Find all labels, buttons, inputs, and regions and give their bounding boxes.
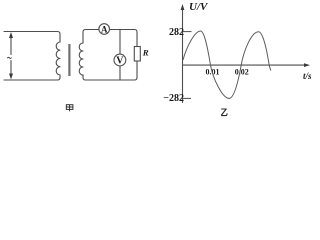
wire resistor bottom to corner xyxy=(83,61,137,80)
coil secondary L2 xyxy=(79,43,83,75)
label yi (graph 乙) xyxy=(221,109,227,116)
AC tilde xyxy=(7,56,11,59)
graph y-axis xyxy=(182,7,184,103)
svg-text:R: R xyxy=(142,47,149,57)
tick -282 xyxy=(183,97,192,99)
graph t-axis xyxy=(183,64,307,66)
label jia (circuit 甲) xyxy=(66,105,73,112)
svg-text:V: V xyxy=(116,56,124,67)
AC source arrow line upper xyxy=(10,36,12,55)
wire primary bottom xyxy=(4,75,60,80)
ammeter A1 circle xyxy=(99,24,110,35)
coil primary L1 xyxy=(56,42,60,75)
transformer core xyxy=(68,44,70,76)
sine curve u(t) xyxy=(183,31,271,98)
svg-text:0.02: 0.02 xyxy=(235,68,249,77)
svg-text:U/V: U/V xyxy=(189,1,209,13)
svg-text:t/s: t/s xyxy=(303,71,312,81)
svg-text:282: 282 xyxy=(169,27,184,38)
tick +282 xyxy=(183,31,192,33)
wire primary top xyxy=(4,32,60,43)
AC source arrow line lower xyxy=(10,61,12,77)
wire A to corner xyxy=(110,30,138,47)
svg-text:−282: −282 xyxy=(163,93,184,104)
wire voltmeter branch bottom xyxy=(119,66,121,80)
svg-text:A: A xyxy=(101,24,108,34)
wire secondary top xyxy=(83,30,99,44)
resistor R body xyxy=(134,47,140,62)
AC source arrowheads xyxy=(9,32,13,80)
y-axis arrowhead xyxy=(181,4,185,10)
wire voltmeter branch top xyxy=(119,30,121,55)
voltmeter V1 circle xyxy=(114,54,126,66)
t-axis arrowhead xyxy=(304,63,310,67)
